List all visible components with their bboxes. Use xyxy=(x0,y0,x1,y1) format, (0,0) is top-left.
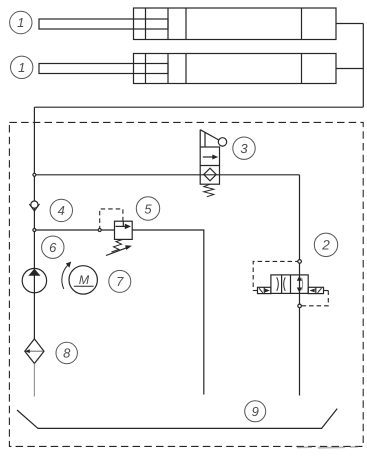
cylinder 1 barrel xyxy=(134,8,337,40)
cylinder 2 piston rod xyxy=(39,64,168,74)
wire cylinder 2 port xyxy=(336,68,363,70)
svg-text:6: 6 xyxy=(49,240,57,255)
cylinder 1 piston rod xyxy=(39,19,168,29)
valve 2 left solenoid xyxy=(258,287,271,293)
relief valve 5 spring xyxy=(112,239,124,252)
valve U3 body (lever-operated shutoff with check) xyxy=(200,147,219,184)
label circle 2 xyxy=(314,233,337,256)
wire right vertical line to valve 2 xyxy=(299,175,301,396)
wire right vertical manifold xyxy=(362,24,364,108)
valve 2 right pilot line (dashed) xyxy=(300,291,329,306)
svg-text:M: M xyxy=(79,273,90,287)
wire cylinder 1 port xyxy=(336,23,363,25)
smudge artifacts on bottom dashed border xyxy=(297,447,358,448)
wire left supply riser xyxy=(33,107,35,339)
svg-text:2: 2 xyxy=(321,238,330,253)
label circle 6 xyxy=(42,236,64,258)
valve U3 lever actuator xyxy=(200,130,227,147)
junction node (riser / relief branch) xyxy=(33,229,36,232)
label circle 5 xyxy=(136,197,159,220)
valve 2 right solenoid xyxy=(308,287,323,293)
svg-text:1: 1 xyxy=(17,15,24,30)
junction node (pilot tap on relief branch) xyxy=(98,229,101,232)
label circle 1 (cylinder 2) xyxy=(11,56,33,78)
label circle 3 xyxy=(233,137,255,159)
wire main horizontal pressure line xyxy=(34,174,299,176)
svg-text:8: 8 xyxy=(63,346,71,361)
junction node (lower pilot tap) xyxy=(298,304,302,308)
svg-text:5: 5 xyxy=(144,201,152,216)
motor M1 xyxy=(69,266,97,294)
label circle 9 xyxy=(245,401,266,422)
svg-text:3: 3 xyxy=(240,141,248,156)
junction node (riser / pressure line) xyxy=(33,173,36,176)
relief valve 5 body xyxy=(115,221,133,239)
filter 8 xyxy=(25,339,44,364)
valve 2 position 2 arc xyxy=(284,277,286,291)
svg-text:9: 9 xyxy=(252,404,259,419)
valve U3 check diamond xyxy=(204,168,216,181)
valve 2 position 1 arc xyxy=(277,277,279,291)
valve 2 position 3 double arrow xyxy=(297,276,303,293)
label circle 1 (cylinder 1) xyxy=(10,11,32,33)
valve U3 spring xyxy=(204,184,214,197)
label circle 8 xyxy=(56,342,77,363)
junction node (upper pilot tap) xyxy=(298,260,302,264)
cylinder 2 barrel xyxy=(134,54,337,84)
relief valve 5 adjustment arrow xyxy=(106,245,132,255)
pump P1 xyxy=(22,268,46,292)
relief valve 5 flow arrow xyxy=(116,221,131,229)
label circle 7 xyxy=(109,270,131,292)
svg-text:1: 1 xyxy=(18,60,25,75)
label circle 4 xyxy=(50,199,72,221)
wire top horizontal feed xyxy=(34,106,363,108)
svg-text:7: 7 xyxy=(116,274,124,289)
directional valve 2 body xyxy=(271,275,308,294)
valve 2 left pilot line (dashed) xyxy=(253,261,299,290)
dashed enclosure (power unit boundary) xyxy=(9,122,363,446)
motor rotation arrow xyxy=(62,262,71,289)
valve U3 flow arrow xyxy=(203,155,218,160)
relief valve 5 pilot line (dashed) xyxy=(100,209,123,228)
wire relief branch line xyxy=(34,229,114,231)
wire suction into tank (light) xyxy=(33,364,35,397)
check valve 4 (ball and seat) xyxy=(29,201,39,211)
tank 9 xyxy=(17,409,337,429)
wire relief outlet to tank xyxy=(132,230,204,395)
svg-text:4: 4 xyxy=(58,203,65,218)
